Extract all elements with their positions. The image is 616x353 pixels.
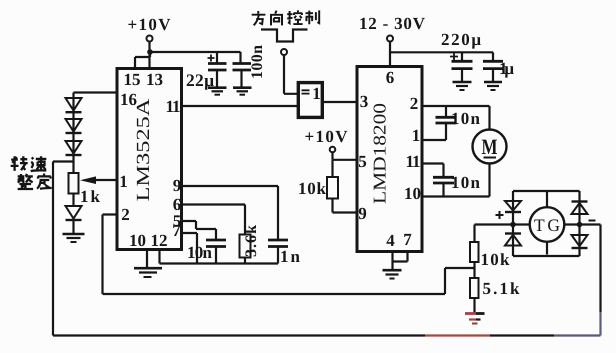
wire +10V to pin 5 [333, 152, 358, 160]
wire bridge plus to divider [475, 225, 514, 242]
label zhuan-su-zheng-ding (speed setting) hand-drawn [11, 156, 52, 189]
wire direction control to gate [284, 55, 298, 94]
svg-text:M: M [482, 134, 498, 159]
node minus junction dot [577, 222, 583, 228]
ground under U1 [134, 267, 162, 270]
svg-text:1: 1 [412, 126, 421, 145]
power terminal 12-30V label [359, 14, 426, 33]
wire bridge minus to feedback [580, 225, 601, 313]
node plus junction dot [510, 222, 516, 228]
capacitor C 1u [492, 52, 494, 61]
minus label at bridge [589, 220, 596, 222]
capacitor C 1n [268, 240, 288, 247]
wire diode chain [72, 98, 74, 162]
power terminal +10V (right) label [305, 127, 349, 146]
svg-text:9: 9 [358, 204, 367, 223]
char su [31, 156, 47, 171]
value label 22u [186, 70, 214, 90]
svg-text:1: 1 [312, 84, 321, 103]
char kong [287, 10, 302, 24]
char zhi [306, 10, 320, 24]
svg-text:10n: 10n [187, 243, 213, 262]
svg-text:2: 2 [410, 94, 419, 113]
ground under U2 [383, 269, 402, 272]
svg-text:12: 12 [151, 231, 168, 250]
plus sign of 22u [208, 55, 215, 62]
diode VD4 [66, 206, 82, 219]
svg-text:15: 15 [124, 70, 141, 89]
svg-text:10: 10 [129, 231, 146, 250]
svg-text:7: 7 [172, 221, 181, 240]
wire pin 6 [182, 205, 245, 235]
wire pin 2 to divider junction [103, 215, 475, 295]
diode VD1 [66, 98, 82, 111]
capacitor C 220u [461, 52, 463, 61]
capacitor C 10n (lower right) [433, 177, 454, 183]
diode VD7 top-right [572, 200, 588, 202]
wire bottom rail riser pin 12 [158, 250, 160, 264]
waveform pulse symbol [261, 30, 308, 42]
wire pin 13 stub [148, 52, 150, 69]
plus sign of 220u [450, 53, 458, 60]
svg-text:+10V: +10V [128, 15, 172, 34]
wire TG stubs [513, 191, 580, 255]
wire pin 16 [74, 93, 118, 99]
label fang-xiang-kong-zhi (direction control) hand-drawn [252, 10, 320, 25]
ground under 100n [233, 86, 252, 89]
diode VD2 [66, 119, 82, 132]
svg-text:220μ: 220μ [441, 30, 481, 49]
svg-text:LM3525A: LM3525A [134, 98, 154, 202]
svg-text:10k: 10k [298, 179, 327, 198]
wire from +10V terminal [148, 42, 150, 53]
power terminal +10V (left) label [128, 15, 172, 34]
wire pin 9 [182, 186, 278, 240]
svg-text:3.6k: 3.6k [243, 225, 260, 257]
terminal circle +10V right [330, 147, 336, 153]
capacitor C 10n (upper right) [445, 106, 447, 117]
resistor R 10k (divider top) [470, 242, 479, 262]
ground under VD4 [63, 233, 85, 235]
terminal circle direction control [281, 49, 287, 55]
wire pin 10 LMD [422, 195, 490, 197]
char fang [252, 11, 266, 25]
svg-text:2: 2 [121, 205, 130, 224]
svg-text:3: 3 [360, 92, 369, 111]
char zheng [18, 174, 33, 189]
svg-text:1: 1 [119, 172, 128, 191]
wire pin 1 with arrow [95, 179, 117, 181]
wire bottom feedback [53, 334, 425, 336]
wire pin 15 stub [135, 52, 150, 69]
bridge left branch wire [512, 191, 514, 256]
ground under 5.1k (reddish) [465, 312, 476, 315]
wire gate output to pin 3 [322, 101, 357, 103]
svg-text:1μ: 1μ [499, 59, 514, 78]
svg-text:1n: 1n [280, 247, 301, 266]
svg-text:11: 11 [166, 97, 181, 116]
plus label at bridge [496, 211, 504, 219]
diode VD3 [66, 141, 82, 154]
svg-text:9: 9 [173, 176, 182, 195]
ground under 220u [453, 81, 472, 84]
ground under 22u [208, 86, 227, 89]
svg-text:TG: TG [534, 215, 560, 235]
svg-text:+10V: +10V [305, 127, 349, 146]
svg-text:10n: 10n [451, 109, 481, 128]
tachogenerator TG [530, 207, 565, 242]
wire pin 7 [182, 233, 197, 264]
bridge rectifier top rail [513, 190, 580, 192]
wire motor to pin 10 [488, 164, 490, 197]
terminal circle 12-30V [387, 36, 393, 42]
svg-text:10k: 10k [481, 250, 511, 269]
value label 220u [441, 30, 481, 49]
wire supply rail right [390, 51, 493, 53]
svg-text:6: 6 [386, 68, 395, 87]
wire pin 11 output [182, 105, 298, 107]
svg-text:5: 5 [358, 152, 367, 171]
XOR gate =1 box [298, 83, 322, 118]
capacitor C 22u [216, 52, 218, 63]
diode VD5 top-left [505, 201, 521, 211]
terminal circle +10V left [147, 36, 153, 42]
capacitor C 10n (left) [206, 240, 226, 247]
wire 12-30V to pin 6 [389, 42, 391, 67]
wire pin 2 LMD to motor [422, 106, 490, 130]
svg-text:12 - 30V: 12 - 30V [359, 14, 426, 33]
diode VD8 bottom-right [572, 235, 588, 246]
bridge right branch wire [578, 191, 580, 256]
wire speed-set node to feedback [53, 160, 74, 162]
motor M [473, 130, 507, 164]
wire IC ground stub pins 10 12 [146, 250, 148, 268]
svg-text:11: 11 [406, 152, 421, 171]
node junction dot at supply rail [147, 49, 153, 55]
svg-text:22μ: 22μ [186, 70, 214, 90]
value label 1u [499, 59, 514, 78]
svg-text:100n: 100n [249, 45, 266, 79]
ground under 1u [484, 81, 502, 84]
bridge bottom rail [513, 255, 580, 257]
capacitor C 100n [239, 52, 241, 63]
wire left feedback vertical [52, 162, 54, 336]
wire bottom rail [160, 262, 279, 264]
resistor R 3.6k [240, 235, 251, 258]
wire pin 11 LMD [422, 164, 444, 178]
svg-text:7: 7 [403, 230, 412, 249]
char zhuan [11, 156, 28, 171]
value label 100n (rotated) [249, 45, 266, 79]
svg-text:10: 10 [404, 184, 421, 203]
diode VD6 bottom-left [505, 232, 521, 234]
svg-text:13: 13 [146, 70, 163, 89]
op IC U1 LM3525A box [117, 69, 182, 250]
resistor R 10k (left) [331, 160, 333, 177]
wire pin 1 LMD [422, 139, 446, 141]
svg-text:5.1k: 5.1k [483, 279, 521, 298]
wire pin 5 [182, 221, 216, 240]
svg-text:1k: 1k [80, 187, 101, 206]
motor driver IC U2 LMD18200 box [357, 67, 422, 252]
resistor R 5.1k (divider bottom) [470, 278, 479, 298]
char xiang [271, 11, 282, 26]
char ding [37, 174, 52, 189]
wire LMD ground pins 4 7 [393, 252, 408, 270]
svg-text:4: 4 [386, 231, 395, 250]
svg-text:10n: 10n [451, 173, 481, 192]
wire supply rail to caps [150, 51, 241, 53]
resistor R 1k [72, 162, 74, 174]
svg-text:LMD18200: LMD18200 [370, 103, 390, 204]
